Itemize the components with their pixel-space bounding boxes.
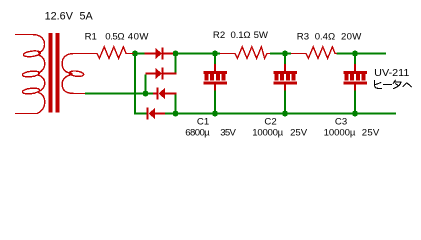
svg-text:R1: R1 bbox=[85, 32, 97, 43]
svg-text:6800µ: 6800µ bbox=[185, 128, 210, 139]
svg-text:R3: R3 bbox=[297, 32, 309, 43]
svg-text:12.6V: 12.6V bbox=[45, 11, 74, 23]
svg-text:C1: C1 bbox=[197, 117, 209, 128]
svg-text:0.5Ω: 0.5Ω bbox=[105, 32, 124, 43]
svg-text:0.4Ω: 0.4Ω bbox=[315, 32, 336, 43]
svg-text:20W: 20W bbox=[341, 32, 362, 43]
svg-text:5A: 5A bbox=[80, 11, 94, 23]
svg-text:35V: 35V bbox=[220, 128, 236, 139]
svg-text:10000µ: 10000µ bbox=[324, 128, 356, 139]
svg-text:UV-211: UV-211 bbox=[374, 68, 410, 79]
svg-text:40W: 40W bbox=[128, 32, 150, 43]
svg-text:5W: 5W bbox=[254, 30, 269, 41]
svg-text:25V: 25V bbox=[290, 128, 308, 139]
svg-text:C3: C3 bbox=[335, 117, 347, 128]
svg-text:0.1Ω: 0.1Ω bbox=[231, 30, 251, 41]
svg-text:25V: 25V bbox=[362, 128, 380, 139]
svg-text:R2: R2 bbox=[213, 30, 225, 41]
svg-text:10000µ: 10000µ bbox=[252, 128, 283, 139]
svg-text:C2: C2 bbox=[264, 117, 276, 128]
